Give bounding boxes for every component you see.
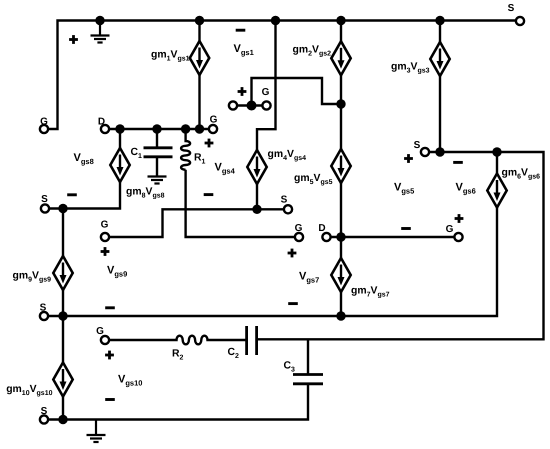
svg-text:G: G [40,116,48,127]
svg-text:S: S [281,195,288,206]
svg-text:G: G [262,87,270,98]
svg-text:S: S [41,194,48,205]
svg-text:S: S [414,140,421,151]
svg-text:S: S [41,406,48,417]
svg-text:G: G [101,220,109,231]
svg-text:G: G [446,224,454,235]
svg-text:G: G [96,326,104,337]
svg-text:D: D [318,223,325,234]
svg-text:G: G [210,114,218,125]
svg-text:S: S [40,303,47,314]
svg-text:G: G [295,223,303,234]
svg-text:S: S [508,3,515,14]
svg-text:D: D [98,116,105,127]
